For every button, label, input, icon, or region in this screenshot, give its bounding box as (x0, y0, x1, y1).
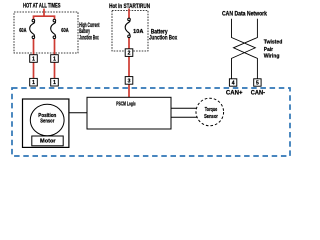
svg-text:Twisted: Twisted (264, 40, 283, 46)
svg-text:Junction Box: Junction Box (149, 36, 178, 42)
svg-text:4: 4 (232, 80, 235, 86)
svg-text:CAN Data Network: CAN Data Network (222, 12, 268, 18)
svg-text:3: 3 (128, 78, 131, 84)
svg-text:CAN+: CAN+ (226, 90, 243, 96)
svg-text:CAN-: CAN- (251, 90, 265, 96)
svg-text:Sensor: Sensor (40, 119, 54, 125)
svg-text:60A: 60A (19, 28, 26, 34)
svg-text:2: 2 (128, 51, 131, 57)
svg-text:Pair: Pair (264, 47, 274, 53)
svg-text:Hot in START/RUN: Hot in START/RUN (109, 4, 150, 10)
svg-text:10A: 10A (133, 29, 143, 35)
svg-text:1: 1 (32, 57, 35, 63)
svg-text:Torque: Torque (205, 107, 218, 113)
svg-text:Junction Box: Junction Box (79, 36, 99, 42)
svg-text:60A: 60A (61, 28, 68, 34)
svg-text:1: 1 (53, 57, 56, 63)
svg-text:Battery: Battery (79, 29, 90, 35)
svg-text:High Current: High Current (79, 23, 99, 29)
svg-text:5: 5 (256, 80, 259, 86)
svg-text:1: 1 (32, 80, 35, 86)
svg-text:PSCM Logic: PSCM Logic (116, 102, 136, 108)
svg-text:Motor: Motor (40, 139, 56, 145)
svg-text:Sensor: Sensor (204, 114, 218, 120)
svg-text:Wiring: Wiring (264, 54, 280, 60)
svg-text:HOT AT ALL TIMES: HOT AT ALL TIMES (23, 4, 61, 10)
svg-text:1: 1 (53, 80, 56, 86)
svg-text:Battery: Battery (151, 30, 169, 36)
